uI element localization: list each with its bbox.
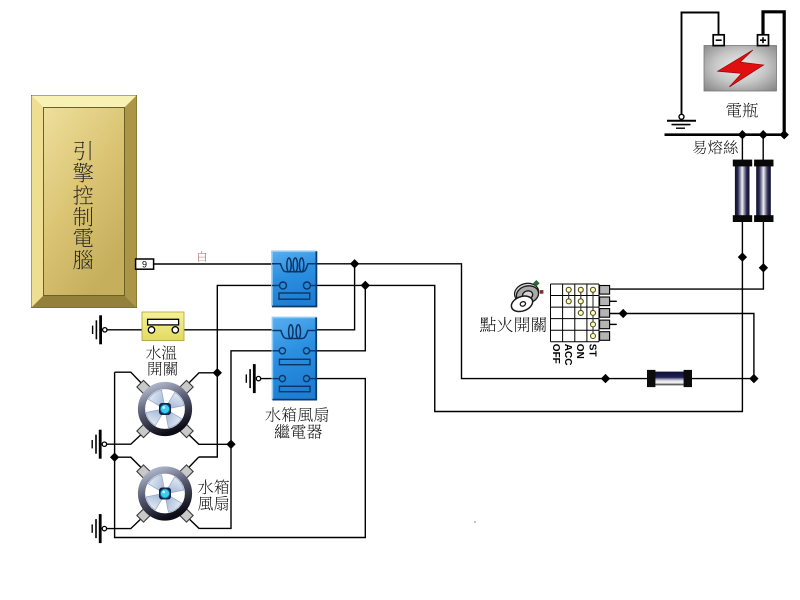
wire fusible link F1 to relay contact feed bbox=[310, 221, 742, 412]
junction ignition IG line bbox=[619, 309, 628, 318]
wire relay 2 contact 2 left to ground G4 bbox=[259, 378, 281, 380]
fusible links label bbox=[693, 141, 706, 155]
wire relay 2 contact 2 right to fan motor returns bbox=[115, 372, 366, 537]
ground G4 relay 2 contact bbox=[246, 364, 260, 393]
junction fan1 feed bbox=[213, 368, 222, 377]
wire fan 1 top-right stub bbox=[183, 373, 217, 389]
junction fan2 feed bbox=[110, 453, 119, 462]
battery negative terminal bbox=[713, 35, 724, 46]
wire fan 2 top-left stub bbox=[115, 457, 147, 473]
relay 2 (radiator fan relay lower) bbox=[272, 317, 316, 399]
relay label bbox=[265, 407, 280, 422]
wire ECU pin 9 to relay 1 coil bbox=[154, 263, 281, 265]
wire main supply rail bbox=[665, 133, 786, 136]
wire ignition ACC stub bbox=[610, 300, 617, 302]
junction rail-battery bbox=[780, 130, 789, 139]
wire fan 2 top-right stub bbox=[183, 457, 199, 474]
wire relay 1 coil to relay 2 coil bbox=[310, 264, 355, 330]
ground G0 battery negative bbox=[667, 114, 696, 128]
svg-text:OFF: OFF bbox=[550, 344, 561, 364]
svg-text:9: 9 bbox=[142, 259, 147, 269]
junction fan return bbox=[226, 440, 235, 449]
ignition switch key icon bbox=[509, 280, 543, 314]
wire battery negative to ground G0 bbox=[682, 13, 719, 115]
fan motor M1 radiator fan bbox=[137, 380, 193, 437]
ignition contact column links bbox=[569, 290, 593, 336]
ignition position labels OFF ACC ON ST bbox=[550, 344, 598, 366]
ECU engine control computer box bbox=[32, 96, 137, 308]
wire label white (bai) bbox=[198, 251, 206, 261]
wire rail to fusible link F1 bbox=[741, 135, 743, 161]
junction link2 drop bbox=[759, 263, 768, 272]
battery label bbox=[726, 103, 741, 117]
ignition switch label bbox=[480, 317, 496, 332]
ignition terminal pads bbox=[600, 286, 610, 341]
junction link1 drop bbox=[738, 252, 747, 261]
wire fusible link F2 to ignition switch battery terminal bbox=[610, 221, 764, 289]
junction rail-link1 bbox=[738, 130, 747, 139]
junction rail-link2 bbox=[759, 130, 768, 139]
junction relay coils node bbox=[350, 259, 359, 268]
fusible link F1 bbox=[733, 160, 752, 222]
wire ignition IG terminal to fuse line bbox=[610, 314, 754, 379]
ECU pin 9 connector bbox=[136, 259, 154, 269]
battery bbox=[704, 46, 777, 92]
fan label bbox=[198, 480, 213, 495]
wire water temp switch to relay 2 coil bbox=[105, 329, 280, 331]
wire fan 1 top-left stub bbox=[115, 372, 147, 389]
junction fuse line right bbox=[749, 374, 758, 383]
wire ground G3 to fan 2 bottom-left bbox=[104, 513, 147, 529]
wire rail to fusible link F2 bbox=[762, 135, 764, 161]
fusible link F2 bbox=[754, 160, 773, 222]
water temperature switch bbox=[142, 312, 184, 341]
fuse (in-line) bbox=[647, 370, 692, 387]
stray mark bbox=[474, 521, 476, 523]
wire relay 2 contact 1 left to fan bottom stubs bbox=[183, 351, 273, 529]
wire relay 1 contact left to fan feeds bbox=[199, 285, 273, 457]
relay 1 (radiator fan relay upper) bbox=[272, 251, 316, 306]
wire fan 1 bottom-right stub bbox=[183, 429, 231, 444]
ignition switch contact grid bbox=[551, 284, 600, 342]
wire relay 2 contact 1 right to relay contacts node bbox=[308, 285, 365, 350]
ground G3 fan 2 bbox=[92, 514, 106, 543]
wire battery positive to main rail bbox=[763, 12, 784, 135]
wire ignition ST stub bbox=[610, 323, 617, 325]
ground G1 water temp switch bbox=[93, 315, 107, 344]
water temp switch label bbox=[146, 345, 161, 359]
wire relay 1 coil right to fuse line bbox=[308, 264, 648, 379]
ignition contact points bbox=[566, 287, 595, 338]
wire ground G2 to fan 1 bottom-left bbox=[104, 429, 147, 444]
ground G2 fan 1 bbox=[92, 430, 106, 459]
svg-text:ON: ON bbox=[574, 344, 585, 359]
svg-text:ST: ST bbox=[586, 344, 597, 357]
fan motor M2 radiator fan bbox=[137, 465, 193, 522]
junction fuse line left bbox=[601, 374, 610, 383]
battery positive terminal bbox=[758, 35, 769, 46]
svg-text:ACC: ACC bbox=[562, 344, 573, 366]
wire fuse to ignition feed junction bbox=[691, 378, 754, 380]
junction relay contacts node bbox=[361, 281, 370, 290]
